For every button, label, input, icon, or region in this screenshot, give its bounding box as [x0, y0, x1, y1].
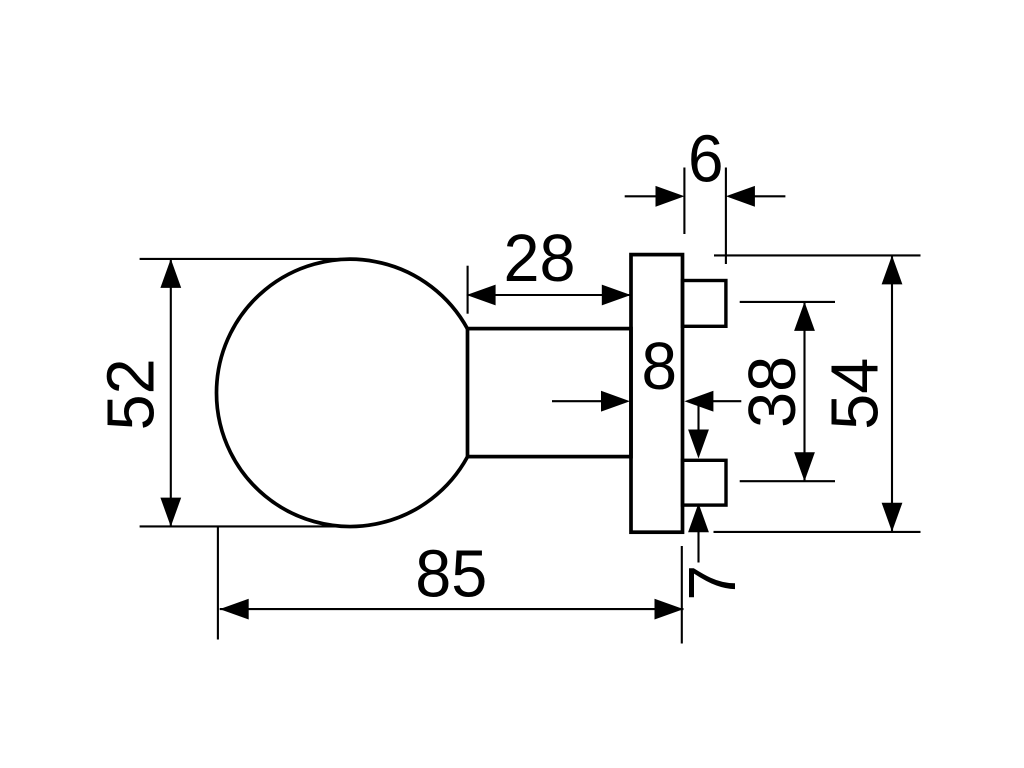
svg-text:52: 52 [94, 358, 168, 430]
dim 8 tail right [713, 400, 741, 402]
svg-text:8: 8 [642, 330, 678, 404]
dim 85 arrow left [220, 599, 249, 620]
dim 6 tail right [755, 195, 786, 197]
svg-text:6: 6 [688, 123, 724, 197]
dim 38 dimension line [803, 302, 805, 481]
dim 28 arrow right [602, 285, 631, 306]
dim 54 extension line bottom [714, 531, 921, 533]
dim 6 arrow right (points left) [726, 186, 755, 207]
dim 6 extension line left [683, 168, 685, 235]
dim 52 extension line top [140, 258, 341, 260]
neck (stem rectangle) [468, 329, 632, 457]
dim 38 extension line top [740, 301, 835, 303]
dim 85 extension line left [217, 528, 219, 640]
top tab [683, 281, 726, 327]
svg-text:85: 85 [415, 538, 487, 612]
dim 38 extension line bottom [740, 480, 835, 482]
dim 54 extension line top [714, 254, 921, 256]
dim 85 extension line right [681, 546, 683, 644]
dim 6 tail left [625, 195, 656, 197]
dim 52 extension line bottom [140, 525, 353, 527]
svg-text:28: 28 [504, 222, 576, 296]
dim 52 arrow up [160, 259, 181, 288]
dim 28 extension line left [467, 266, 469, 314]
dim 7 upper tail [697, 401, 699, 430]
dim 8 arrow left (points right) [601, 391, 630, 412]
dim 7 lower tail [697, 532, 699, 563]
bottom tab [683, 460, 727, 505]
dim 6 extension line right [725, 168, 727, 265]
dim 54 arrow up [882, 255, 903, 284]
svg-text:7: 7 [676, 565, 750, 601]
knob ball (circle arc, clipped at neck) [216, 259, 467, 526]
dim 6 arrow left (points right) [656, 186, 685, 207]
dim 52 dimension line [170, 259, 172, 527]
dim 85 arrow right [655, 599, 684, 620]
dim 38 arrow up [794, 302, 815, 331]
dim 8 arrow right (points left) [684, 391, 713, 412]
dim 7 arrow down [688, 430, 709, 459]
dim 52 arrow down [160, 498, 181, 527]
dim 54 dimension line [891, 256, 893, 532]
dim 85 dimension line [220, 608, 684, 610]
dim 54 arrow down [882, 503, 903, 532]
rose plate [631, 255, 683, 533]
svg-text:54: 54 [819, 358, 893, 430]
dim 8 tail left [552, 400, 602, 402]
dim 28 arrow left [467, 285, 496, 306]
svg-text:38: 38 [736, 356, 810, 428]
dim 38 arrow down [794, 452, 815, 481]
dim 28 dimension line [467, 294, 631, 296]
dim 7 arrow up [688, 503, 709, 532]
